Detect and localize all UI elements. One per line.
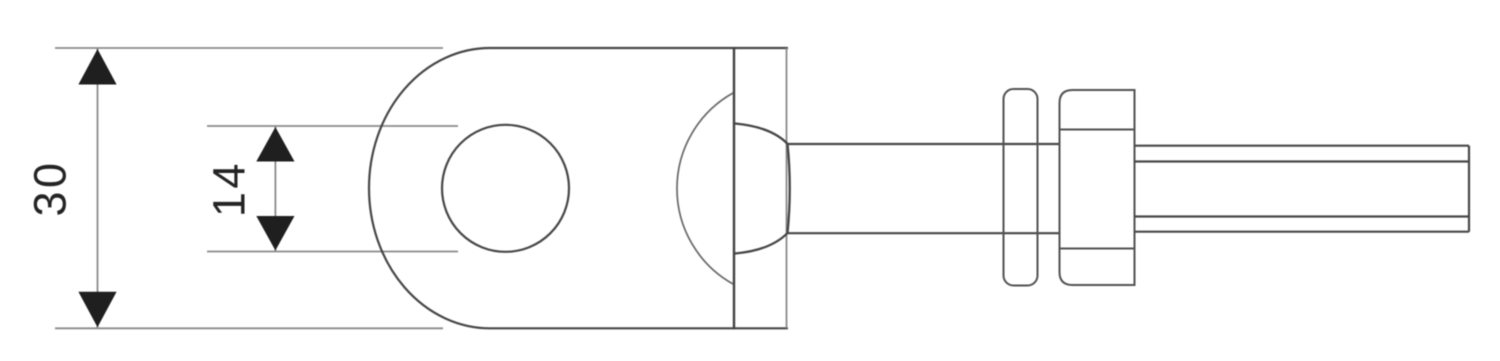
svg-text:14: 14 bbox=[204, 160, 255, 217]
svg-text:30: 30 bbox=[25, 159, 76, 216]
